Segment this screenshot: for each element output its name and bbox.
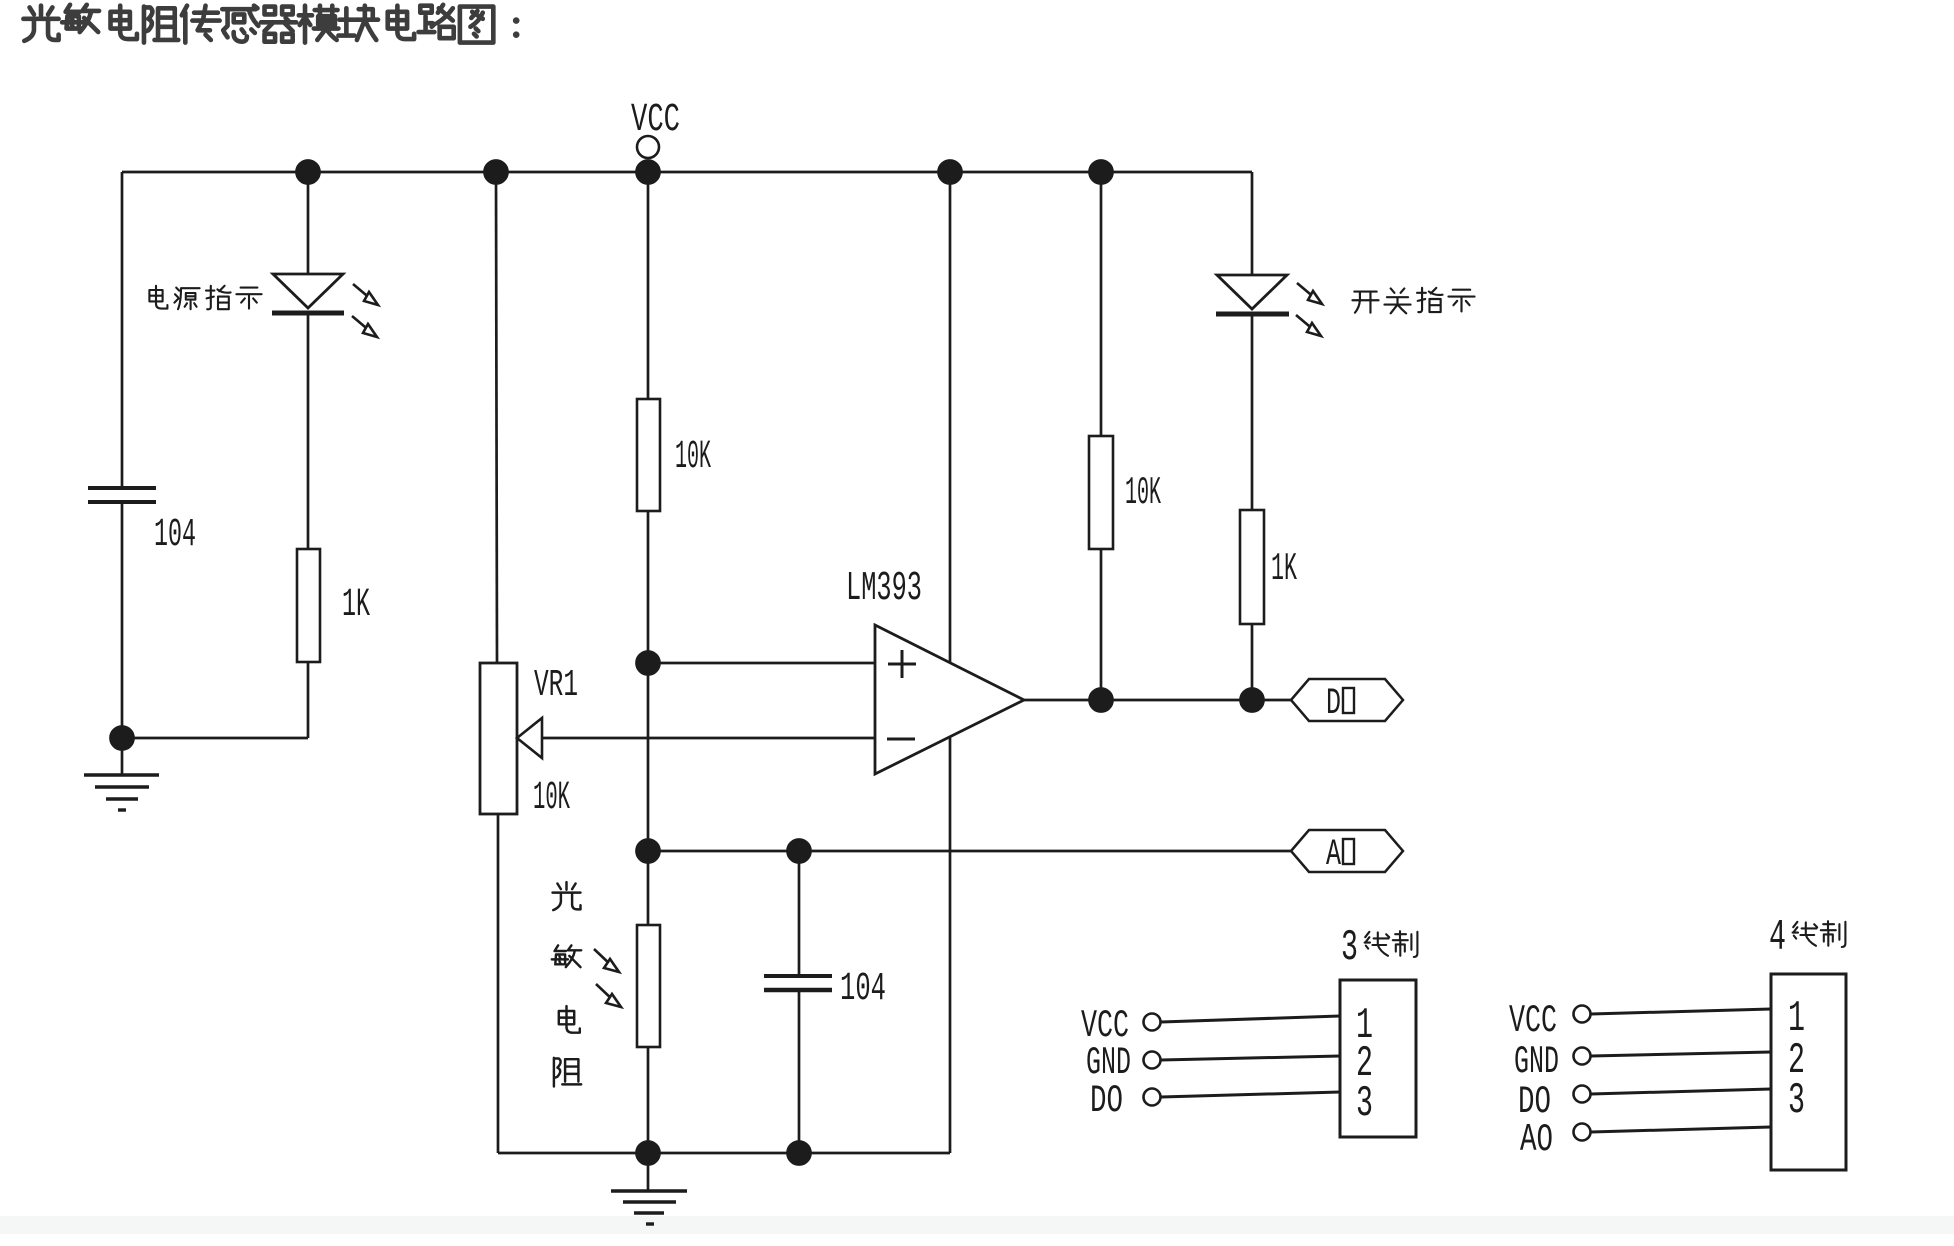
LED D1 power indicator [273,274,343,308]
svg-text:VR1: VR1 [534,664,578,707]
connector J2 wires [1591,1009,1771,1014]
svg-text:DO: DO [1090,1079,1123,1123]
wire center column VCC to R2 [647,172,650,399]
LED D2 light arrows [1296,283,1322,336]
potentiometer VR1 wiper arrow [543,737,875,740]
connector J2 pin circles [1574,1006,1591,1023]
svg-text:104: 104 [840,967,886,1012]
label 电源指示 power indicator [149,286,167,309]
junction dot rail/VCC [637,161,660,184]
svg-text:3: 3 [1788,1076,1805,1126]
op-amp U1 LM393 [875,625,1024,774]
svg-text:A: A [1326,834,1342,876]
svg-text:10K: 10K [675,435,711,480]
ground symbol left [121,738,124,775]
svg-text:D: D [1326,683,1341,725]
flag AO [1291,830,1403,872]
junction dot output/10K [1090,689,1113,712]
label 3线制 (CJK part) [1365,932,1390,956]
wire to op-amp +input [648,662,875,665]
svg-text:10K: 10K [1125,471,1161,515]
flag DO [1291,679,1403,721]
connector J1 wires [1161,1016,1340,1022]
bottom divider band [0,1216,1954,1234]
junction dot AO/C2 [788,840,811,863]
resistor R4 1K body [1240,510,1264,624]
photoresistor LDR body [637,925,660,1047]
junction dot ground node left [111,727,134,750]
connector J2 4-wire box [1771,974,1846,1170]
capacitor C1 104 plates [88,486,156,490]
junction dot rail/10K right branch [1090,161,1113,184]
op-amp +input mark [888,663,916,666]
wire LDR bottom [647,1047,650,1153]
junction dot AO node [637,840,660,863]
resistor R3 10K body [1089,436,1113,549]
ground symbol bottom [647,1153,650,1191]
wire left branch down to C1 [121,172,124,486]
photoresistor light arrows [594,949,621,1007]
svg-text:GND: GND [1514,1040,1559,1084]
connector J1 3-wire box [1340,980,1416,1137]
junction dot bottom rail/C2 [788,1142,811,1165]
wire LED2 anode [1251,172,1254,275]
svg-text:3: 3 [1356,1079,1373,1129]
wire LED2 cathode to R4 [1251,314,1254,510]
CJK annotation labels [149,286,1845,1087]
wire C2 bottom [798,990,801,1153]
wire op-amp power column [949,172,952,1153]
svg-text:104: 104 [154,513,196,558]
svg-text:1K: 1K [342,583,370,628]
wire LED1 cathode to R1 [307,313,310,549]
potentiometer VR1 body [480,663,517,814]
svg-text:1K: 1K [1271,547,1297,591]
junction dot rail/op-amp power column [939,161,962,184]
wire C2 top [798,851,801,974]
wire AO line [648,850,1291,853]
resistor R1 1K body [297,549,320,662]
wire LED1 anode [307,172,310,274]
junction dot rail/VR1 branch [485,161,508,184]
svg-text:4: 4 [1769,913,1786,963]
net VCC terminal circle [637,136,659,158]
label 光敏电阻 photoresistor (vertical) [553,882,581,910]
junction dot bottom rail/LDR [637,1142,660,1165]
svg-text:3: 3 [1341,923,1358,973]
wire VR1 bottom to bottom rail [497,814,500,1153]
LED D1 light arrows [352,284,378,337]
wire VCC top rail [122,171,1252,174]
junction dot rail/LED1 branch [297,161,320,184]
wire 10K right branch [1100,172,1103,436]
svg-text:10K: 10K [533,776,570,821]
wire R4 bottom [1251,624,1254,700]
wire bottom rail [498,1152,950,1155]
resistor R2 10K body [637,399,660,511]
svg-text:VCC: VCC [631,98,680,143]
op-amp -input mark [887,738,915,741]
wire VR1 top column [496,172,497,663]
label 开关指示 switch indicator [1352,292,1378,313]
wire R3 bottom [1100,549,1103,700]
text labels (Latin/digits) [154,98,1805,1162]
connector J1 pin circles [1144,1014,1161,1031]
wire C1 bottom to ground node [121,502,124,738]
svg-text:VCC: VCC [1509,999,1557,1043]
LED D2 switch indicator [1217,275,1287,309]
wire ground node to R1 bottom [122,737,308,740]
junction dot output/1K [1241,689,1264,712]
svg-text:AO: AO [1520,1118,1553,1162]
label 4线制 (CJK part) [1793,922,1818,946]
junction dot +input node [637,652,660,675]
svg-text:LM393: LM393 [846,566,922,612]
wire R1 bottom [307,662,310,738]
wire op-amp output [1024,699,1291,702]
title 光敏电阻传感器模块电路图： [23,5,519,43]
capacitor C2 104 plates [764,974,832,978]
wire center column R2 to LDR [647,511,650,925]
